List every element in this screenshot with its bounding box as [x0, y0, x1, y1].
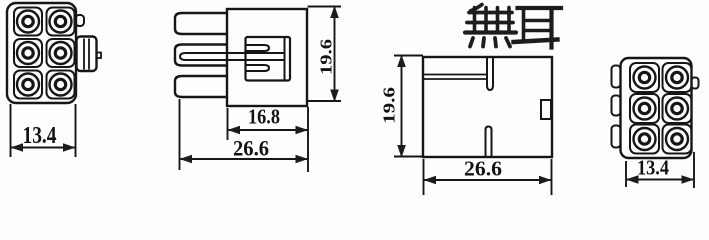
receptacle side view: body — [423, 57, 552, 157]
latch block right edge — [77, 37, 102, 72]
terminal blade through middle prong — [180, 53, 284, 60]
keyway double line receptacle — [424, 75, 487, 80]
label 13.4 right — [637, 156, 669, 180]
dimension 19.6 plug side view — [308, 6, 342, 103]
dimension 26.6 plug overall — [180, 99, 309, 170]
dimension 16.8 plug depth — [228, 107, 309, 172]
dimension 13.4 right view — [626, 152, 694, 188]
plug side view: body — [227, 9, 307, 106]
svg-text:13.4: 13.4 — [23, 123, 57, 149]
text wu (no) character — [465, 5, 516, 47]
small tab right edge top — [76, 15, 85, 26]
svg-text:16.8: 16.8 — [248, 105, 280, 129]
label 16.8 — [248, 105, 280, 129]
svg-text:19.6: 19.6 — [380, 87, 399, 124]
label 13.4 left — [23, 123, 57, 149]
bottom slot receptacle — [486, 127, 492, 158]
svg-text:13.4: 13.4 — [637, 156, 669, 180]
svg-text:26.6: 26.6 — [464, 157, 502, 181]
right bump right view — [692, 78, 699, 89]
dimension 26.6 receptacle — [424, 159, 552, 195]
label 19.6 plug side — [317, 39, 336, 75]
svg-text:26.6: 26.6 — [233, 136, 269, 161]
connector front view left: body — [7, 3, 76, 103]
text er (ear) character — [514, 8, 562, 48]
label 19.6 receptacle — [380, 87, 399, 124]
connector front view right: body — [621, 58, 692, 158]
terminal cavity in plug body — [246, 37, 291, 81]
dimension 19.6 receptacle — [394, 55, 423, 158]
pin cavity squares left view — [14, 8, 75, 99]
latch window right wall receptacle — [541, 100, 551, 119]
top slot receptacle — [487, 57, 493, 90]
svg-text:19.6: 19.6 — [317, 39, 336, 75]
pin cavity squares right view — [630, 63, 692, 154]
left edge tabs right view — [612, 66, 621, 148]
dimension 13.4 left view — [11, 104, 76, 157]
plug side view: prongs — [175, 13, 228, 97]
pin circles right view — [634, 67, 689, 151]
pin circles left view — [17, 11, 72, 96]
label 26.6 plug — [233, 136, 269, 161]
label 26.6 receptacle — [464, 157, 502, 181]
